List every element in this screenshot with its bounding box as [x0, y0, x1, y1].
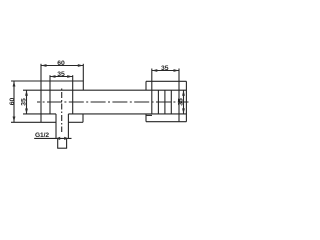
svg-text:35: 35 [57, 71, 65, 78]
left block inner vertical left [49, 75, 51, 114]
svg-text:G1/2: G1/2 [35, 132, 49, 139]
dimension 35 horizontal top [50, 71, 73, 78]
left block top edge [41, 80, 83, 82]
left block bottom edge left [11, 121, 56, 123]
stub nose bottom edge [57, 147, 67, 149]
G1/2 leader and thread dimension line [34, 137, 71, 140]
dimension 60 vertical left [9, 81, 16, 122]
dimension 35 horizontal right [152, 65, 179, 72]
thread line 1 [151, 69, 153, 114]
thread line 4 [170, 90, 172, 114]
stub nose left edge [57, 139, 59, 149]
stub centerline [61, 87, 63, 133]
right block right edge [185, 81, 187, 121]
left block right edge upper [82, 64, 84, 90]
svg-text:60: 60 [57, 60, 65, 67]
thread line 2 [157, 90, 159, 114]
right block top edge [146, 80, 186, 82]
left block inner vertical right [72, 75, 74, 114]
dimension 35 vertical left [20, 90, 28, 114]
right block left edge upper [145, 81, 147, 90]
stub nose right edge [66, 139, 68, 149]
svg-text:60: 60 [9, 98, 16, 106]
right block left edge lower [145, 114, 147, 122]
svg-text:35: 35 [177, 98, 184, 106]
left block right edge lower [82, 114, 84, 122]
left block left edge [40, 64, 42, 123]
stub left edge [55, 114, 57, 139]
right block inner step line [146, 114, 152, 116]
flange face line [178, 69, 180, 122]
dimension 35 vertical right internal [177, 90, 185, 114]
svg-text:35: 35 [20, 98, 27, 106]
right block bottom edge [146, 121, 186, 123]
arm centerline [37, 101, 189, 103]
tube bottom edge left [23, 113, 56, 115]
left block bottom edge right [68, 121, 83, 123]
svg-text:35: 35 [161, 65, 169, 72]
stub right edge [67, 114, 69, 139]
tube bottom edge right [68, 113, 186, 115]
dimension 60 horizontal top [41, 60, 83, 67]
extension line top outer [11, 80, 41, 82]
tube top edge [23, 89, 186, 91]
thread line 3 [164, 90, 166, 114]
